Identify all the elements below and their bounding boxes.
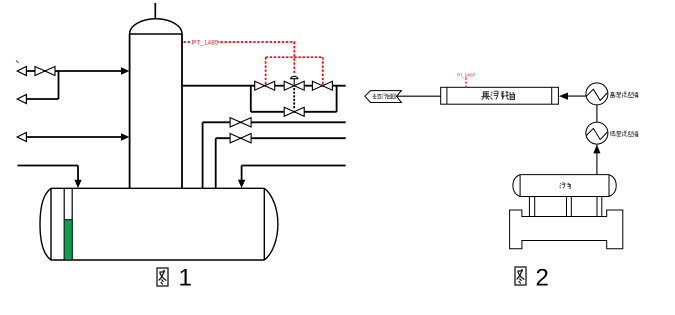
svg-text:1: 1: [179, 264, 192, 291]
svg-text:2: 2: [536, 264, 549, 291]
svg-text:PI_1407: PI_1407: [457, 72, 475, 78]
svg-text:PT_1485: PT_1485: [192, 40, 219, 47]
